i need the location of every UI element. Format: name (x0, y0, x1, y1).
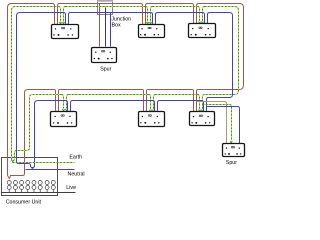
wire neutral ring middle: return leg down to consumer unit neutral bar (33, 101, 66, 169)
wire live ring top: socket1 to socket2 through junction box (60, 3, 141, 5)
wire earth leg A end at earth bar (arrow) (12, 160, 13, 162)
wire live dip into socket 3 top (192, 4, 195, 24)
wire earth ring: top-right corner and right leg down (205, 7, 239, 95)
wire live dip into socket 4 (middle left) (58, 90, 61, 112)
wire live ring: top-right corner and right leg down (199, 4, 244, 90)
spur socket fed from socket 6 (223, 144, 245, 157)
wire spur live (socket6 to spur socket, tan) (197, 102, 227, 144)
svg-text:Box: Box (112, 22, 121, 28)
wire earth ring middle: socket6 to socket5 (156, 94, 198, 96)
wire neutral dip into socket 5 (middle centre) (157, 101, 160, 112)
wire live ring middle: socket6 to socket5 (149, 89, 192, 91)
svg-text:Earth: Earth (69, 155, 82, 161)
wire spur earth from junction box (bare conductor) (105, 8, 107, 47)
earth bar with label line (13, 162, 75, 164)
wire spur neutral (socket6 to spur socket) (207, 107, 240, 144)
socket outlet 3 (top right, on ring) (189, 24, 216, 38)
wire neutral ring: top-right corner and right leg down (209, 13, 233, 98)
wire neutral ring middle: socket6 to socket5 (160, 100, 202, 102)
svg-text:Neutral: Neutral (68, 171, 85, 177)
wire live dip into socket 6 (middle right) (196, 90, 199, 112)
wire earth ring middle: return leg down to consumer unit earth bar (13, 95, 62, 162)
breaker 6 (38, 181, 42, 193)
socket outlet 2 (top centre, on ring) (139, 25, 165, 38)
wire earth ring middle: socket5 to socket4 (69, 94, 149, 96)
wire earth ring top: socket2 to socket3 (153, 6, 198, 8)
breaker 7 (45, 181, 49, 193)
wire neutral ring top: socket2 to socket3 (158, 12, 203, 14)
breaker 3 (20, 181, 24, 193)
wire live ring: left leg up from consumer unit, top-left corner (8, 4, 54, 176)
wire neutral dip into socket 3 top (203, 13, 206, 24)
wire live dip into socket 5 (middle centre) (146, 90, 149, 113)
wire neutral dip into socket 1 top (64, 13, 67, 25)
wire neutral dip into socket 4 (middle left) (70, 101, 73, 112)
wire earth dip into socket 1 top (59, 7, 61, 23)
wire live ends joined at MCB terminal (arrow) (8, 176, 10, 179)
socket outlet 4 (middle left, on ring) (51, 112, 77, 127)
wire live dip into socket 2 top (141, 4, 144, 25)
junction box (98, 1, 113, 15)
socket outlet 6 (middle right, on ring) (190, 112, 215, 126)
wire neutral dip into socket 6 (middle right) (206, 98, 209, 112)
wire neutral ring top: socket1 to socket2 through junction box (71, 12, 151, 14)
wire earth dip into socket 3 top (198, 7, 200, 22)
breaker 5 (32, 181, 36, 193)
svg-text:Spur: Spur (100, 66, 111, 72)
wire live ring middle: socket5 to socket4 (61, 89, 142, 91)
breaker 8 (51, 181, 55, 193)
breaker 4 (26, 181, 30, 193)
consumer unit (2, 158, 58, 196)
wire earth dip into socket 5 (middle centre) (154, 95, 156, 110)
wire neutral ring middle: socket5 to socket4 (73, 100, 153, 102)
wire earth ring: left leg and top-left corner (12, 7, 59, 160)
svg-text:Spur: Spur (226, 160, 237, 166)
socket outlet 5 (middle centre, on ring) (139, 112, 165, 127)
socket outlet 1 (top left, on ring) (52, 25, 79, 39)
svg-text:Live: Live (66, 185, 76, 191)
wire earth ring top: socket1 to socket2 through junction box (66, 6, 146, 8)
breaker 1 (7, 181, 11, 193)
wire earth dip into socket 2 top (146, 7, 148, 23)
wire live dip into socket 1 top (53, 4, 56, 25)
breaker 2 (13, 181, 17, 193)
wire earth dip into socket 6 (middle right) (203, 95, 205, 110)
live busbar under breakers (2, 192, 76, 194)
wire neutral dip into socket 2 top (151, 13, 154, 25)
wire earth dip into socket 4 (middle left) (67, 95, 69, 109)
wire neutral spur tap in junction box down to spur socket (110, 13, 112, 47)
spur socket fed from junction box (92, 48, 117, 63)
wire live ring top: socket2 to socket3 (148, 3, 192, 5)
wire live spur tap in junction box down to spur socket (99, 4, 101, 47)
wire live ring middle: return leg down to consumer unit (10, 90, 54, 179)
wire neutral ring: left leg and top-left corner (17, 13, 64, 162)
wire neutral leg A routed to neutral bar (arrow) (17, 162, 33, 169)
wire spur earth (socket6 to spur socket) (203, 105, 232, 141)
svg-text:Consumer Unit: Consumer Unit (6, 199, 42, 204)
neutral bar with label line (26, 169, 75, 171)
